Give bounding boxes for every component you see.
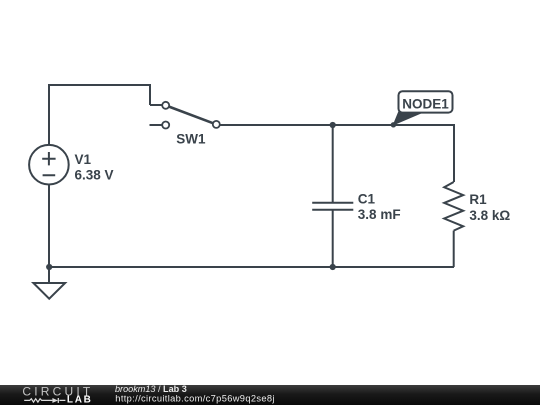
- wire left rail upper (V1 top): [48, 84, 50, 146]
- svg-text:brookm13 / Lab 3: brookm13 / Lab 3: [115, 384, 187, 394]
- svg-text:SW1: SW1: [176, 132, 206, 147]
- wire drop to switch throw: [150, 84, 162, 105]
- junction dot at C1 top: [330, 122, 336, 128]
- label C1 value: [358, 192, 401, 223]
- svg-text:LAB: LAB: [67, 394, 93, 405]
- capacitor C1: [312, 203, 353, 210]
- svg-text:6.38 V: 6.38 V: [75, 168, 114, 183]
- node NODE1 callout: [391, 91, 453, 127]
- svg-text:V1: V1: [75, 152, 92, 167]
- label V1 value: [75, 152, 114, 183]
- label SW1: [176, 132, 206, 147]
- voltage source V1: [29, 145, 69, 185]
- footer bar: [0, 385, 540, 405]
- wire top from V1 to corner: [49, 84, 150, 86]
- wire switch common to right corner: [220, 124, 454, 126]
- junction dot at ground node: [46, 264, 52, 270]
- svg-text:R1: R1: [469, 192, 487, 207]
- wire right rail upper (to R1): [453, 124, 455, 182]
- wire right rail lower (from R1): [453, 231, 455, 267]
- footer title text: [115, 384, 275, 404]
- label R1 value: [469, 192, 510, 223]
- svg-text:http://circuitlab.com/c7p56w9q: http://circuitlab.com/c7p56w9q2se8j: [115, 394, 275, 404]
- wire C1 lower: [332, 210, 334, 267]
- wire left rail lower (V1 bottom): [48, 184, 50, 267]
- svg-text:NODE1: NODE1: [402, 97, 449, 112]
- svg-text:3.8 mF: 3.8 mF: [358, 207, 401, 222]
- ground: [33, 267, 65, 299]
- wire C1 upper: [332, 125, 334, 203]
- resistor R1: [444, 182, 463, 231]
- wire bottom rail: [49, 266, 454, 268]
- svg-text:3.8 kΩ: 3.8 kΩ: [469, 208, 510, 223]
- junction dot at C1 bottom: [330, 264, 336, 270]
- CircuitLab logo: [22, 385, 93, 405]
- svg-text:C1: C1: [358, 192, 376, 207]
- switch SW1: [150, 102, 220, 129]
